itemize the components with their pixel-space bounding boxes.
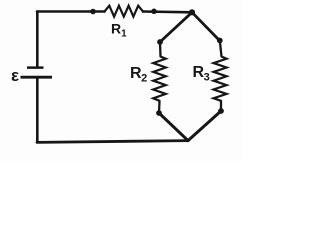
resistor R2 xyxy=(153,57,166,101)
wire R3 bottom lead xyxy=(220,101,222,111)
wire R2 bottom lead xyxy=(158,101,161,113)
battery cell ε bottom plate (long) xyxy=(21,76,53,79)
svg-text:R2: R2 xyxy=(130,65,147,85)
node D dot (top of R2) xyxy=(157,39,163,45)
node B junction dot (right of R1) xyxy=(151,9,157,15)
node F dot (bottom of R2) xyxy=(156,110,162,116)
wire diagonal R2 bottom to V apex xyxy=(159,113,188,141)
wire R2 top lead xyxy=(159,42,162,57)
wire bottom horizontal xyxy=(37,141,188,143)
svg-text:R3: R3 xyxy=(193,64,210,84)
svg-text:R1: R1 xyxy=(111,21,127,40)
wire R3 top lead xyxy=(220,41,222,57)
wire left vertical lower (battery to corner) xyxy=(36,79,39,143)
node C apex junction dot xyxy=(189,9,195,15)
svg-text:ε: ε xyxy=(11,66,19,85)
node A junction dot (left of R1) xyxy=(90,9,96,15)
wire top-left horizontal xyxy=(37,10,105,13)
wire R1 to top apex xyxy=(143,10,192,13)
wire diagonal apex to R3 top xyxy=(192,12,220,40)
node E dot (top of R3) xyxy=(217,38,223,44)
node G dot (bottom of R3) xyxy=(218,108,224,114)
wire diagonal apex to R2 top xyxy=(160,12,192,42)
wire diagonal R3 bottom to V apex xyxy=(188,111,221,141)
wire left vertical upper (corner to battery) xyxy=(36,12,39,67)
resistor R1 xyxy=(105,6,144,17)
resistor R3 xyxy=(214,57,227,101)
battery cell ε top plate (short) xyxy=(27,66,44,69)
